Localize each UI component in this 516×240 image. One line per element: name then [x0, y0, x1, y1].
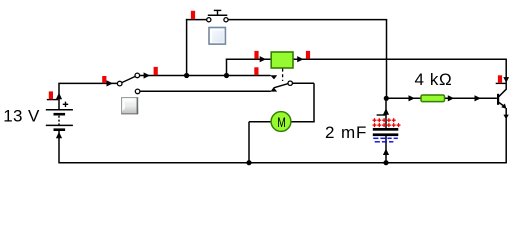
- current arrow right (after 4k resistor): [448, 95, 454, 101]
- voltage probe (left of switch): [102, 76, 106, 83]
- node D4 (bottom rail / motor): [246, 160, 251, 165]
- current arrow right (before switch): [107, 80, 113, 86]
- wire: capacitor top vertical: [385, 98, 387, 128]
- wire: switch lower throw to relay lower contact: [140, 90, 271, 92]
- battery B1 13 V: [46, 102, 73, 131]
- current arrow up (battery top): [56, 93, 62, 99]
- voltage probe (collector): [496, 75, 507, 83]
- capacitor C1 2 mF: [373, 128, 399, 136]
- node D2 (junction coil branch): [224, 73, 229, 78]
- voltage probe (top wire): [191, 11, 195, 19]
- wire: motor left vertical to bottom rail: [248, 122, 250, 163]
- svg-text:4 kΩ: 4 kΩ: [415, 70, 453, 89]
- capacitor positive charges: [373, 118, 401, 127]
- relay coil L1: [271, 52, 293, 68]
- wire: collector vertical: [505, 59, 507, 89]
- wire: bottom rail: [59, 162, 506, 164]
- wire: right vertical of top loop: [386, 20, 388, 99]
- voltage probe (after switch): [154, 67, 158, 75]
- motor M1: [271, 112, 291, 132]
- node D5 (bottom rail / capacitor): [383, 160, 388, 165]
- current arrow up (capacitor bottom lead): [383, 149, 389, 155]
- voltage probe (relay upper contact wire): [254, 67, 258, 75]
- wire: motor right horizontal: [291, 121, 315, 123]
- wire: switch upper throw to relay upper contact: [140, 75, 271, 77]
- wire: base resistor wire: [387, 97, 497, 99]
- current arrow down (emitter lead): [503, 115, 508, 120]
- current arrow right (after relay coil): [297, 56, 303, 62]
- relay lever: [274, 84, 288, 88]
- switch S1 (SPDT two-way): [117, 73, 140, 94]
- wire: battery top vertical: [58, 83, 60, 110]
- push switch actuator icon (blue button): [209, 28, 225, 45]
- current arrow right (before relay coil): [260, 56, 266, 62]
- current arrow right (before transistor base): [475, 95, 481, 101]
- wire: coil branch horizontal: [226, 58, 271, 60]
- wire: battery to switch pole: [58, 82, 117, 84]
- relay pivot: [288, 81, 292, 85]
- wire: coil output to transistor collector: [293, 58, 507, 60]
- relay upper contact: [270, 75, 277, 79]
- wire: coil branch vertical: [226, 59, 228, 76]
- switch actuator icon (gray button): [121, 97, 138, 114]
- wire: top wire right of push button: [228, 19, 387, 21]
- wire: emitter vertical: [505, 108, 507, 163]
- probe tick (capacitor top lead): [377, 114, 386, 116]
- node D1 (junction push-button branch): [184, 73, 189, 78]
- current arrow up (battery bottom): [56, 132, 62, 138]
- current arrow right (before 4k resistor): [409, 95, 415, 101]
- wire: battery bottom vertical: [58, 131, 60, 164]
- wire: top wire left of push button: [186, 19, 207, 21]
- voltage probe (battery top): [47, 91, 58, 99]
- voltage probe (left of coil): [254, 51, 258, 59]
- wire: motor right vertical: [313, 83, 315, 122]
- wire: relay pole to motor branch: [292, 82, 314, 84]
- wire: push-button branch vertical: [186, 19, 188, 76]
- current arrow up (capacitor top lead): [383, 108, 389, 114]
- svg-text:2 mF: 2 mF: [325, 123, 367, 142]
- resistor R1 4 kOhm: [421, 95, 445, 102]
- voltage probe (right of coil): [306, 51, 310, 59]
- node D3 (junction base/capacitor): [384, 96, 389, 101]
- current arrow down (collector lead): [503, 77, 509, 83]
- current arrow right (after switch): [144, 72, 150, 78]
- relay lower contact: [270, 87, 277, 91]
- wire: motor left horizontal: [249, 121, 271, 123]
- push switch S2 (normally open): [207, 10, 228, 21]
- svg-text:13 V: 13 V: [3, 107, 40, 126]
- transistor Q1 (NPN): [497, 89, 507, 109]
- relay link (dashed): [282, 69, 284, 81]
- svg-text:M: M: [277, 114, 286, 130]
- capacitor negative charges: [373, 138, 398, 142]
- wire: capacitor bottom vertical: [385, 136, 387, 163]
